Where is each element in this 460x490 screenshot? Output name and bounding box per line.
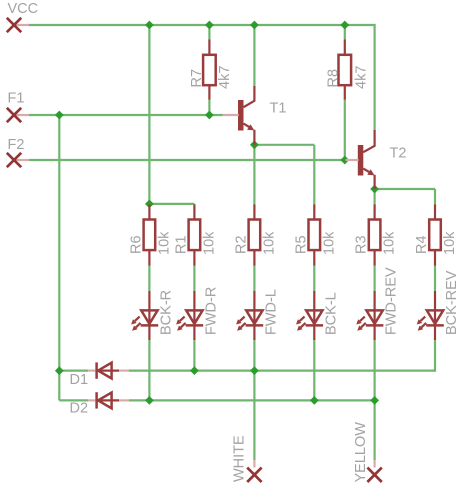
diode D2 cathode bar [95, 392, 98, 408]
resistor R2 bottom pin [253, 250, 255, 266]
junction F2/R8/T2 base [340, 156, 349, 165]
wire FWD-R cathode to net line1 [193, 340, 195, 371]
wire BCK-REV cathode to net line1 corner [434, 340, 436, 372]
transistor T2 emitter pin [374, 175, 376, 189]
resistor R4 body [429, 220, 441, 251]
svg-text:T1: T1 [270, 101, 287, 117]
svg-text:WHITE: WHITE [232, 435, 248, 482]
wire resistor to LED at x=149.4 [148, 266, 150, 291]
svg-text:BCK-R: BCK-R [158, 290, 174, 335]
transistor T2 emitter [363, 169, 370, 173]
LED BCK-REV axis pin [434, 291, 436, 340]
svg-text:D1: D1 [70, 372, 89, 388]
net VCC horizontal wire [29, 24, 375, 26]
resistor R7 bottom pin [208, 85, 210, 99]
junction F1/R7 bottom [205, 111, 214, 120]
LED BCK-REV cathode bar [426, 324, 444, 327]
resistor R3 bottom pin [374, 250, 376, 266]
VCC pin stub [14, 24, 29, 26]
LED BCK-L light arrow 2 [301, 323, 306, 328]
wire VCC to T1 collector [253, 25, 255, 86]
svg-text:4k7: 4k7 [217, 66, 233, 89]
svg-text:R8: R8 [326, 69, 342, 88]
resistor R5 body [309, 220, 321, 251]
diode D1 right pin stub [119, 370, 129, 372]
LED BCK-L axis pin [313, 291, 315, 340]
LED FWD-REV light arrow 1 [360, 317, 365, 322]
LED FWD-L cathode bar [246, 324, 264, 327]
wire BCK-L cathode to net line2 [313, 340, 315, 400]
net line2 (YELLOW) right part [129, 399, 375, 401]
transistor T1 emitter arrow [247, 124, 254, 130]
svg-text:F1: F1 [8, 91, 25, 107]
transistor T2 base pin [346, 159, 359, 161]
wire FWD-REV cathode down to YELLOW [374, 340, 376, 460]
svg-text:BCK-L: BCK-L [323, 292, 339, 335]
svg-text:R3: R3 [354, 235, 370, 254]
resistor R6 bottom pin [148, 250, 150, 266]
junction F1 branch [55, 111, 64, 120]
resistor R7 body [203, 55, 216, 85]
junction T2 emitter node [370, 185, 379, 194]
transistor T2 emitter arrow [367, 169, 374, 175]
LED BCK-R light arrow 2 [136, 323, 141, 328]
wire resistor to LED at x=374.6 [374, 266, 376, 291]
LED FWD-REV cathode bar [366, 324, 384, 327]
net line1 right part [129, 370, 435, 372]
LED FWD-R light arrow 2 [181, 323, 186, 328]
YELLOW pin cross symbol [367, 468, 381, 482]
YELLOW pin stub [374, 460, 376, 468]
svg-text:R4: R4 [414, 235, 430, 254]
diode D1 left pin stub [88, 370, 96, 372]
LED FWD-REV triangle [366, 310, 382, 324]
diode D1 triangle [98, 363, 112, 379]
junction line2/BCK-R [145, 396, 154, 405]
resistor R5 bottom pin [313, 250, 315, 266]
svg-text:R6: R6 [129, 235, 145, 254]
svg-text:R7: R7 [189, 69, 205, 88]
svg-text:R2: R2 [234, 235, 250, 254]
LED FWD-REV axis pin [374, 291, 376, 340]
junction VCC/R8 [340, 21, 349, 30]
LED BCK-L cathode bar [306, 324, 324, 327]
resistor R5 top pin [313, 205, 315, 220]
junction VCC/R6 column [145, 21, 154, 30]
svg-text:10k: 10k [262, 231, 278, 255]
resistor R4 bottom pin [434, 250, 436, 266]
svg-text:10k: 10k [382, 231, 398, 255]
wire R6 node to R1 [149, 203, 194, 205]
junction VCC/T1 collector [250, 21, 259, 30]
junction T1 emitter node [250, 140, 259, 149]
wire corner to D2 [59, 399, 88, 401]
LED BCK-R triangle [141, 310, 157, 324]
resistor R2 body [249, 220, 261, 251]
LED BCK-REV light arrow 2 [421, 323, 426, 328]
wire R7 top stub [208, 25, 210, 40]
wire R1 top drop [193, 204, 195, 206]
resistor R6 body [144, 220, 156, 251]
resistor R3 body [369, 220, 381, 251]
resistor R1 top pin [193, 205, 195, 220]
svg-text:FWD-R: FWD-R [203, 287, 219, 335]
LED FWD-L axis pin [253, 291, 255, 340]
wire drop to R4 [434, 189, 436, 206]
wire resistor to LED at x=314.3 [313, 266, 315, 291]
junction line1/WHITE [250, 366, 259, 375]
diode D1 cathode bar [95, 362, 98, 378]
svg-text:VCC: VCC [8, 1, 39, 17]
diode D2 triangle [98, 393, 112, 409]
diode D2 right pin stub [119, 399, 129, 401]
svg-text:10k: 10k [442, 231, 458, 255]
F2 pin stub [14, 159, 29, 161]
svg-text:BCK-REV: BCK-REV [444, 270, 460, 335]
resistor R8 top pin [344, 40, 346, 55]
LED BCK-L triangle [306, 310, 322, 324]
svg-text:4k7: 4k7 [354, 66, 370, 89]
transistor T2 base bar [358, 145, 364, 176]
LED FWD-R triangle [186, 310, 202, 324]
svg-text:10k: 10k [202, 231, 218, 255]
transistor T1 emitter pin [253, 130, 255, 145]
resistor R1 bottom pin [193, 250, 195, 266]
resistor R8 bottom pin [344, 85, 346, 99]
LED BCK-REV light arrow 1 [420, 317, 425, 322]
resistor R1 body [189, 220, 201, 251]
wire R8 top stub [344, 25, 346, 40]
wire T1 emitter drop to R2 [253, 145, 255, 206]
net F1 horizontal wire [29, 114, 223, 116]
LED FWD-L light arrow 2 [241, 323, 246, 328]
LED BCK-L light arrow 1 [300, 317, 305, 322]
LED BCK-REV triangle [427, 310, 443, 324]
junction line2/YELLOW [370, 396, 379, 405]
transistor T2 collector [363, 130, 374, 152]
LED FWD-REV light arrow 2 [361, 323, 366, 328]
wire FWD-L cathode down to WHITE [253, 340, 255, 460]
wire T2 emitter node horizontal [375, 188, 435, 190]
diode D2 left pin stub [88, 399, 96, 401]
svg-text:T2: T2 [390, 146, 407, 162]
resistor R8 body [339, 55, 352, 85]
WHITE pin stub [253, 460, 255, 468]
LED FWD-R axis pin [193, 291, 195, 340]
LED BCK-R axis pin [148, 291, 150, 340]
wire VCC drop to R6/R1 node [148, 25, 150, 204]
wire F1 branch vertical to D1/D2 [58, 115, 60, 400]
resistor R3 top pin [374, 205, 376, 220]
LED FWD-L triangle [246, 310, 262, 324]
svg-text:FWD-L: FWD-L [263, 289, 279, 335]
net F2 horizontal wire [29, 159, 345, 161]
transistor T1 base pin [223, 114, 239, 116]
resistor R6 top pin [148, 205, 150, 220]
resistor R7 top pin [208, 40, 210, 55]
svg-text:10k: 10k [322, 231, 338, 255]
transistor T1 base bar [238, 100, 244, 131]
diode D2 axis pin [97, 399, 119, 401]
wire BCK-R cathode to net line2 [148, 340, 150, 400]
wire resistor to LED at x=254.4 [253, 266, 255, 291]
svg-text:YELLOW: YELLOW [353, 422, 369, 483]
LED FWD-L light arrow 1 [240, 317, 245, 322]
wire resistor to LED at x=435.0 [434, 266, 436, 291]
svg-text:FWD-REV: FWD-REV [384, 267, 400, 335]
transistor T1 collector [244, 86, 255, 107]
junction line1/FWD-R [190, 366, 199, 375]
WHITE pin cross symbol [247, 468, 261, 482]
wire R8 bottom to F2 [344, 99, 346, 161]
transistor T1 emitter [244, 124, 251, 128]
junction D1 node [55, 366, 64, 375]
svg-text:R1: R1 [174, 235, 190, 254]
svg-text:F2: F2 [8, 137, 25, 153]
LED BCK-R cathode bar [141, 324, 159, 327]
VCC pin cross symbol [7, 18, 21, 32]
svg-text:D2: D2 [70, 401, 89, 417]
wire R7 bottom to F1 [208, 99, 210, 116]
junction line2/BCK-L [310, 396, 319, 405]
svg-text:R5: R5 [294, 235, 310, 254]
LED FWD-R cathode bar [186, 324, 204, 327]
junction R6/R1 node [145, 200, 154, 209]
wire VCC corner down to T2 collector [374, 24, 376, 130]
wire drop to R5 [313, 145, 315, 206]
resistor R2 top pin [253, 205, 255, 220]
wire T1 emitter node horizontal [254, 144, 314, 146]
wire T2 emitter drop to R3 [374, 189, 376, 206]
wire resistor to LED at x=194.4 [193, 266, 195, 291]
net line1 (WHITE) horizontal [59, 370, 88, 372]
LED FWD-R light arrow 1 [180, 317, 185, 322]
junction VCC/R7 [205, 21, 214, 30]
svg-text:10k: 10k [157, 231, 173, 255]
diode D1 axis pin [97, 370, 119, 372]
resistor R4 top pin [434, 205, 436, 220]
F2 pin cross symbol [7, 153, 21, 167]
LED BCK-R light arrow 1 [135, 317, 140, 322]
F1 pin cross symbol [7, 108, 21, 122]
F1 pin stub [14, 114, 29, 116]
